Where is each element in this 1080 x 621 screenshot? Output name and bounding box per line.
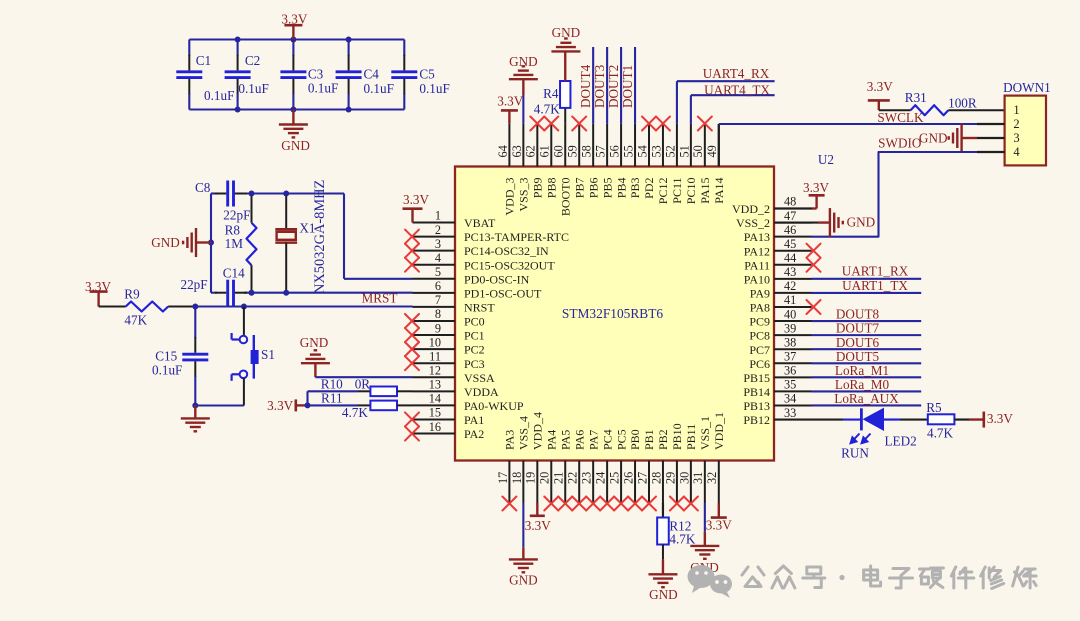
svg-text:22: 22 (566, 472, 580, 484)
label UART1_TX net (842, 278, 908, 293)
svg-text:0.1uF: 0.1uF (238, 81, 268, 96)
capacitor C15 (182, 307, 208, 406)
resistor R9 (99, 302, 196, 312)
no-connect X pin 22 (572, 497, 586, 511)
label R8 (225, 223, 241, 238)
svg-text:R9: R9 (124, 287, 140, 302)
svg-text:0.1uF: 0.1uF (364, 81, 394, 96)
svg-text:R5: R5 (926, 400, 942, 415)
svg-text:PB3: PB3 (628, 178, 642, 199)
label LoRa_AUX net (834, 391, 899, 406)
svg-text:VSSA: VSSA (464, 371, 495, 385)
svg-text:PA11: PA11 (744, 258, 770, 272)
no-connect X pin 27 (642, 497, 656, 511)
wire LoRa_M1 net (812, 376, 922, 378)
svg-text:DOUT5: DOUT5 (836, 349, 880, 364)
svg-text:4: 4 (1013, 145, 1020, 159)
wire SWDIO net (812, 152, 1005, 237)
svg-text:BOOT0: BOOT0 (558, 178, 572, 217)
op-amp U1 STM32F105RBT6 body (455, 167, 774, 461)
label UART4_RX net (703, 66, 770, 81)
no-connect X pin 44 (807, 258, 821, 272)
no-connect X pin 25 (614, 497, 628, 511)
svg-text:GND: GND (509, 573, 538, 588)
ground GND pin63 (509, 54, 538, 124)
svg-text:7: 7 (435, 293, 441, 307)
ground GND BOOT0 (551, 25, 580, 81)
svg-text:25: 25 (607, 472, 621, 484)
no-connect X pin 16 (405, 427, 419, 441)
LED2 light arrows (851, 434, 871, 444)
resistor R8 (247, 194, 257, 293)
svg-text:PC14-OSC32_IN: PC14-OSC32_IN (464, 244, 549, 258)
wire UART4_TX net (691, 95, 775, 124)
label U1 part number (562, 306, 663, 321)
svg-text:PA0-WKUP: PA0-WKUP (464, 399, 524, 413)
connector DOWN1 body (1005, 96, 1046, 166)
svg-text:PB6: PB6 (586, 178, 600, 199)
svg-text:PA9: PA9 (750, 287, 770, 301)
svg-text:39: 39 (784, 321, 796, 335)
svg-text:PB2: PB2 (656, 429, 670, 450)
wire DOUT6 net (812, 348, 922, 350)
svg-text:NRST: NRST (464, 301, 495, 315)
svg-text:31: 31 (691, 472, 705, 484)
svg-text:C5: C5 (419, 67, 435, 82)
watermark text 公众号·电子硬件修炼 (742, 566, 1036, 589)
svg-text:27: 27 (635, 472, 649, 484)
svg-text:PB10: PB10 (670, 423, 684, 450)
svg-text:UART4_RX: UART4_RX (703, 66, 770, 81)
wire pin33 to LED (774, 418, 843, 420)
label SWCLK net (877, 110, 924, 125)
svg-text:PC15-OSC32OUT: PC15-OSC32OUT (464, 258, 555, 272)
pin DOWN1-2 stub (977, 123, 1005, 125)
label LoRa_M1 net (835, 363, 889, 378)
svg-text:UART1_RX: UART1_RX (842, 264, 909, 279)
no-connect X pin 10 (405, 342, 419, 356)
svg-text:PD1-OSC-OUT: PD1-OSC-OUT (464, 286, 542, 300)
svg-text:PC8: PC8 (749, 329, 770, 343)
svg-text:64: 64 (496, 145, 510, 157)
no-connect X pin 45 (807, 244, 821, 258)
svg-text:STM32F105RBT6: STM32F105RBT6 (562, 306, 663, 321)
label C15 value (152, 363, 182, 378)
node NRST junctions (192, 304, 247, 310)
svg-text:GND: GND (552, 25, 581, 40)
resistor R11 (370, 401, 412, 411)
svg-text:DOUT4: DOUT4 (578, 64, 593, 108)
resistor R10 (370, 387, 412, 397)
svg-text:62: 62 (524, 145, 538, 157)
svg-text:PD2: PD2 (642, 178, 656, 199)
label C8 value (223, 208, 250, 223)
wire LoRa_AUX net (812, 404, 922, 406)
svg-text:5: 5 (435, 265, 441, 279)
svg-text:4.7K: 4.7K (927, 425, 953, 440)
label R9 (124, 287, 140, 302)
svg-text:C8: C8 (195, 180, 211, 195)
label C8 (195, 180, 211, 195)
wire DOUT7 net (812, 334, 922, 336)
capacitor C8 (215, 181, 247, 207)
switch S1 (232, 307, 259, 406)
svg-text:57: 57 (594, 145, 608, 157)
svg-text:48: 48 (784, 195, 796, 209)
svg-text:21: 21 (552, 472, 566, 484)
no-connect X pin 59 (572, 117, 586, 131)
wire DOUT2 net (620, 47, 622, 124)
svg-text:PB14: PB14 (743, 385, 770, 399)
svg-text:3.3V: 3.3V (267, 398, 293, 413)
svg-text:PB4: PB4 (614, 178, 628, 199)
svg-text:PA15: PA15 (698, 178, 712, 204)
svg-text:3.3V: 3.3V (497, 94, 523, 109)
resistor R4 (560, 81, 570, 124)
wire crystal left vertical (210, 194, 212, 293)
svg-text:DOWN1: DOWN1 (1003, 80, 1051, 95)
svg-text:15: 15 (429, 406, 441, 420)
svg-text:PC1: PC1 (464, 329, 485, 343)
wire VSSA net (315, 376, 412, 378)
svg-text:DOUT2: DOUT2 (606, 65, 621, 108)
no-connect X pin 20 (544, 497, 558, 511)
capacitor C2 (225, 40, 251, 110)
wire R11 lead (308, 404, 371, 406)
svg-text:VDD_2: VDD_2 (732, 202, 770, 216)
node crystal junctions (208, 191, 289, 296)
no-connect X pin 9 (405, 328, 419, 342)
svg-text:LED2: LED2 (884, 434, 916, 449)
capacitor C14 (215, 280, 247, 306)
svg-text:PA12: PA12 (744, 244, 770, 258)
wire pullup branch (308, 391, 371, 405)
svg-text:C14: C14 (223, 265, 245, 280)
svg-text:6: 6 (435, 279, 441, 293)
label MRST net (362, 291, 398, 306)
label U2 designator (818, 152, 834, 167)
label LoRa_M0 net (835, 377, 890, 392)
ground GND reset (181, 406, 210, 432)
svg-text:1M: 1M (225, 236, 244, 251)
label R8 value (225, 236, 244, 251)
svg-text:2: 2 (435, 223, 441, 237)
pin DOWN1-1 number (1013, 103, 1019, 117)
svg-text:DOUT1: DOUT1 (620, 65, 635, 108)
wire C15 bottom (195, 404, 244, 406)
label R5 (926, 400, 942, 415)
svg-text:C4: C4 (364, 67, 380, 82)
svg-text:VBAT: VBAT (464, 216, 496, 230)
svg-text:PB12: PB12 (743, 413, 770, 427)
pin DOWN1-2 number (1013, 117, 1019, 131)
no-connect X pin 54 (642, 117, 656, 131)
svg-text:43: 43 (784, 265, 796, 279)
no-connect X pin 30 (684, 497, 698, 511)
no-connect X pin 24 (600, 497, 614, 511)
svg-text:1: 1 (1013, 103, 1019, 117)
svg-text:0.1uF: 0.1uF (204, 88, 234, 103)
svg-text:3.3V: 3.3V (403, 192, 429, 207)
wire UART4_RX net (677, 81, 775, 124)
label C4 (364, 67, 380, 82)
wire crystal top rail (211, 192, 344, 194)
resistor R5 (900, 414, 969, 424)
resistor R12 (657, 503, 669, 559)
svg-text:PA13: PA13 (744, 230, 770, 244)
svg-text:PC3: PC3 (464, 357, 485, 371)
svg-text:U2: U2 (818, 152, 834, 167)
no-connect X pin 29 (670, 497, 684, 511)
label DOUT2 net (606, 65, 621, 108)
svg-text:R4: R4 (543, 86, 559, 101)
svg-text:GND: GND (509, 54, 538, 69)
power 3.3V pin32 (706, 503, 732, 533)
power 3.3V reset (85, 279, 111, 307)
ground GND pin31 (690, 503, 719, 575)
watermark WeChat icon (688, 565, 733, 598)
svg-text:61: 61 (538, 145, 552, 157)
label C3 (308, 67, 324, 82)
svg-text:DOUT3: DOUT3 (592, 64, 607, 108)
svg-text:4.7K: 4.7K (342, 405, 368, 420)
svg-text:PB0: PB0 (628, 429, 642, 450)
svg-text:4.7K: 4.7K (534, 102, 560, 117)
wire SWCLK net (719, 124, 977, 167)
label R10 value (355, 377, 371, 392)
svg-text:PC4: PC4 (600, 429, 614, 450)
svg-text:LoRa_M1: LoRa_M1 (835, 363, 889, 378)
svg-text:VSS_3: VSS_3 (517, 178, 531, 212)
wire crystal bottom rail (211, 292, 413, 294)
svg-text:29: 29 (663, 472, 677, 484)
svg-text:59: 59 (566, 145, 580, 157)
svg-text:RUN: RUN (841, 445, 869, 460)
svg-text:PB13: PB13 (743, 399, 770, 413)
svg-text:18: 18 (510, 472, 524, 484)
wire DOUT8 net (812, 320, 922, 322)
label S1 (261, 347, 275, 362)
svg-text:33: 33 (784, 406, 796, 420)
label DOUT5 net (836, 349, 880, 364)
label C15 (155, 349, 177, 364)
svg-text:49: 49 (705, 145, 719, 157)
label C1 value (204, 88, 234, 103)
pin DOWN1-3 number (1013, 131, 1019, 145)
svg-text:PC6: PC6 (749, 357, 770, 371)
no-connect X pin 8 (405, 314, 419, 328)
svg-text:0.1uF: 0.1uF (308, 80, 338, 95)
no-connect X pin 62 (530, 117, 544, 131)
svg-text:2: 2 (1013, 117, 1019, 131)
svg-text:NX5032GA-8MHZ: NX5032GA-8MHZ (312, 180, 328, 294)
svg-text:32: 32 (705, 472, 719, 484)
power 3.3V pin64 (497, 94, 523, 124)
label R31 value (948, 96, 977, 111)
svg-text:3.3V: 3.3V (525, 518, 551, 533)
power 3.3V pullups (267, 398, 307, 413)
svg-text:37: 37 (784, 349, 796, 363)
node cap-bank top junctions (235, 37, 352, 43)
power 3.3V cap-bank (281, 12, 307, 40)
svg-text:24: 24 (594, 472, 608, 484)
label UART1_RX net (842, 264, 909, 279)
wire cap-bank bottom rail (189, 108, 404, 110)
svg-text:PA4: PA4 (544, 430, 558, 450)
no-connect X pin 11 (405, 356, 419, 370)
node cap-bank bottom junctions (235, 107, 352, 113)
svg-text:PC13-TAMPER-RTC: PC13-TAMPER-RTC (464, 230, 569, 244)
svg-text:3.3V: 3.3V (706, 518, 732, 533)
svg-text:28: 28 (649, 472, 663, 484)
label DOUT6 net (836, 335, 880, 350)
svg-text:52: 52 (663, 145, 677, 157)
capacitor C1 (176, 40, 202, 110)
label DOUT4 net (578, 64, 593, 108)
svg-text:PA5: PA5 (558, 430, 572, 450)
svg-text:45: 45 (784, 237, 796, 251)
svg-text:PA7: PA7 (586, 430, 600, 450)
svg-text:19: 19 (524, 472, 538, 484)
no-connect X pin 21 (558, 497, 572, 511)
label X1 (299, 221, 315, 236)
svg-text:PC5: PC5 (614, 429, 628, 450)
svg-text:VDD_3: VDD_3 (503, 178, 517, 216)
ground GND DOWN1 pin3 (919, 124, 1005, 153)
label R4 (543, 86, 559, 101)
svg-text:SWDIO: SWDIO (878, 136, 921, 151)
svg-text:PB7: PB7 (572, 178, 586, 199)
capacitor C4 (336, 40, 362, 110)
power 3.3V LED (969, 411, 1013, 427)
svg-text:DOUT7: DOUT7 (836, 321, 880, 336)
no-connect X pin 41 (807, 300, 821, 314)
svg-text:PA14: PA14 (712, 178, 726, 204)
label R12 value (669, 532, 695, 547)
svg-text:0.1uF: 0.1uF (152, 363, 182, 378)
svg-text:58: 58 (580, 145, 594, 157)
svg-text:UART1_TX: UART1_TX (842, 278, 908, 293)
svg-text:53: 53 (649, 145, 663, 157)
label C3 value (308, 80, 338, 95)
svg-text:GND: GND (281, 138, 310, 153)
wire OSC-IN to pin5 (344, 194, 413, 279)
svg-text:LoRa_AUX: LoRa_AUX (834, 391, 899, 406)
svg-text:GND: GND (847, 214, 876, 229)
svg-text:LoRa_M0: LoRa_M0 (835, 377, 890, 392)
svg-text:PC2: PC2 (464, 343, 485, 357)
pins 17-32 bottom side with numbers and names (496, 412, 726, 503)
svg-text:C2: C2 (245, 53, 260, 68)
svg-text:0.1uF: 0.1uF (419, 81, 449, 96)
label C5 (419, 67, 435, 82)
capacitor C5 (391, 40, 417, 110)
svg-text:38: 38 (784, 335, 796, 349)
svg-text:SWCLK: SWCLK (877, 110, 924, 125)
svg-text:4.7K: 4.7K (669, 532, 695, 547)
svg-text:51: 51 (677, 145, 691, 157)
svg-text:R10: R10 (321, 377, 343, 392)
svg-text:60: 60 (552, 145, 566, 157)
svg-text:30: 30 (677, 472, 691, 484)
no-connect X pin 2 (405, 230, 419, 244)
resistor R31 (879, 105, 1005, 115)
label DOUT8 net (836, 307, 880, 322)
node pullup junction (305, 402, 311, 408)
svg-text:3.3V: 3.3V (867, 79, 893, 94)
no-connect X pin 3 (405, 244, 419, 258)
power 3.3V pin48 (774, 180, 829, 209)
svg-text:DOUT6: DOUT6 (836, 335, 880, 350)
label RUN net (841, 445, 869, 460)
svg-text:22pF: 22pF (223, 208, 250, 223)
svg-text:3.3V: 3.3V (987, 411, 1013, 426)
wire NRST net (195, 305, 412, 307)
label R11 value (342, 405, 368, 420)
svg-text:10: 10 (429, 335, 441, 349)
pins 49-64 top side with numbers and names (496, 124, 726, 216)
label C4 value (364, 81, 394, 96)
pins 1-16 left side with numbers and names (413, 209, 570, 441)
no-connect X pin 61 (544, 117, 558, 131)
label R5 value (927, 425, 953, 440)
svg-text:41: 41 (784, 293, 796, 307)
svg-text:PC7: PC7 (749, 343, 770, 357)
no-connect X pin 17 (502, 497, 516, 511)
power 3.3V R31 (867, 79, 893, 110)
LED LED2 (843, 408, 900, 431)
power 3.3V pin1 (403, 192, 430, 223)
no-connect X pin 23 (586, 497, 600, 511)
svg-text:23: 23 (580, 472, 594, 484)
svg-text:50: 50 (691, 145, 705, 157)
svg-text:GND: GND (151, 235, 180, 250)
wire LoRa_M0 net (812, 390, 922, 392)
no-connect X pin 15 (405, 412, 419, 426)
label C5 value (419, 81, 449, 96)
wire cap-bank top rail (189, 38, 404, 40)
label R31 (905, 90, 927, 105)
svg-text:20: 20 (538, 472, 552, 484)
svg-text:C15: C15 (155, 349, 177, 364)
svg-text:PA2: PA2 (464, 427, 484, 441)
svg-text:PC0: PC0 (464, 315, 485, 329)
label R4 value (534, 102, 560, 117)
wire DOUT4 net (592, 47, 594, 124)
label C1 (196, 53, 211, 68)
no-connect X pin 4 (405, 258, 419, 272)
label R9 value (124, 313, 147, 328)
label R12 (669, 518, 691, 533)
label SWDIO net (878, 136, 921, 151)
svg-text:4: 4 (435, 251, 441, 265)
svg-text:11: 11 (429, 349, 441, 363)
svg-text:47K: 47K (124, 313, 147, 328)
svg-text:100R: 100R (948, 96, 977, 111)
ground GND pin47 (774, 208, 875, 237)
svg-text:54: 54 (635, 145, 649, 157)
node C15 bottom junction (192, 403, 198, 409)
wire UART1_TX net (812, 292, 922, 294)
ground GND cap-bank (279, 110, 310, 154)
svg-text:MRST: MRST (362, 291, 398, 306)
no-connect X pin 53 (656, 117, 670, 131)
svg-text:34: 34 (784, 392, 796, 406)
label R11 (321, 391, 343, 406)
svg-text:44: 44 (784, 251, 796, 265)
svg-text:PA3: PA3 (503, 430, 517, 450)
svg-text:VDDA: VDDA (464, 385, 499, 399)
